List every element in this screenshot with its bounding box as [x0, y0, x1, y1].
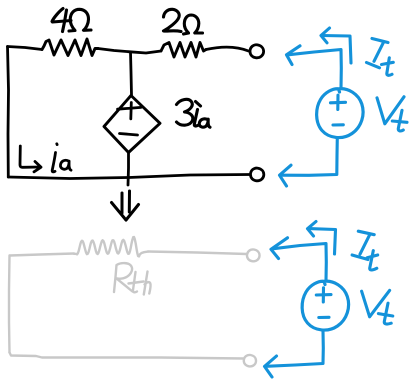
wire between resistors: [98, 49, 161, 54]
resistor R2 2ohm: [161, 43, 206, 58]
source Vt top circle: [317, 89, 363, 138]
label 4ohm: [52, 9, 91, 32]
label 3ia: [177, 99, 211, 127]
label It top: [367, 39, 394, 76]
gray node terminal top: [247, 249, 260, 261]
resistor Rth: [74, 237, 148, 256]
Vt lead top arrow: [287, 46, 342, 89]
wire junction vertical to U1: [131, 52, 132, 95]
Vt lead top arrow bottom-circuit: [271, 238, 326, 281]
label Vt top: [377, 97, 407, 131]
wire U1 bottom to node: [127, 153, 130, 186]
resistor R1 4ohm: [42, 39, 98, 56]
Vt lead bottom arrow bottom-circuit: [265, 331, 324, 377]
label 2ohm: [164, 9, 203, 34]
node terminal bottom-right: [251, 168, 264, 181]
source Vt bottom circle: [302, 281, 348, 330]
plus sign Vt bottom: [316, 288, 331, 302]
minus sign U1: [120, 134, 138, 136]
gray wire bottom: [10, 353, 244, 359]
label Vt bottom: [362, 290, 393, 324]
label It bottom: [352, 231, 378, 270]
label Rth: [114, 263, 151, 294]
gray wire left vertical: [8, 256, 11, 353]
plus sign U1: [118, 103, 142, 119]
wire top-left segment: [8, 47, 43, 50]
gray wire to top terminal: [148, 252, 247, 255]
gray node terminal bottom: [244, 355, 256, 367]
current arrow ia: [20, 146, 41, 172]
label ia: [52, 144, 71, 172]
minus sign Vt bottom: [319, 316, 329, 319]
It direction hook top: [321, 28, 351, 63]
transform double arrow: [112, 191, 139, 220]
minus sign Vt top: [333, 123, 343, 126]
node terminal top-right: [250, 45, 264, 58]
dependent source U1 diamond: [104, 96, 160, 153]
Vt lead bottom arrow top-circuit: [280, 138, 338, 187]
wire to top terminal: [206, 47, 249, 51]
plus sign Vt top: [331, 95, 346, 109]
wire left vertical: [8, 47, 9, 178]
It direction hook bottom: [308, 222, 336, 255]
gray wire top: [10, 254, 74, 256]
wire bottom: [8, 175, 250, 179]
